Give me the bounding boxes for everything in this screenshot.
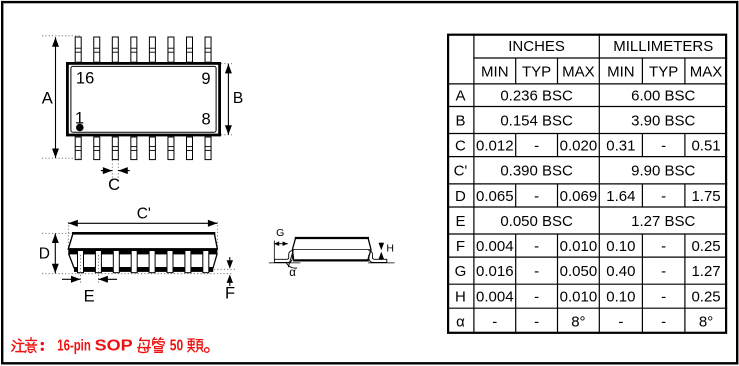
- front view: body top (lid): [68, 233, 217, 249]
- svg-text:0.154 BSC: 0.154 BSC: [500, 112, 573, 129]
- table row C': [454, 163, 696, 180]
- svg-text:9.90 BSC: 9.90 BSC: [631, 163, 695, 180]
- detail view: body side profile: [292, 238, 371, 261]
- svg-text:H: H: [386, 243, 394, 255]
- front view: body mid band: [68, 248, 217, 254]
- table header MIN TYP MAX: [481, 63, 722, 80]
- svg-text:-: -: [534, 238, 539, 255]
- svg-text:C': C': [454, 163, 468, 180]
- svg-text:MIN: MIN: [607, 63, 635, 80]
- top view: lower pins 1..8: [75, 137, 211, 160]
- red note: 管: [152, 338, 164, 353]
- svg-text:8°: 8°: [571, 313, 585, 330]
- svg-text:1.64: 1.64: [606, 188, 635, 205]
- svg-text:9: 9: [201, 70, 210, 88]
- svg-text:C: C: [108, 176, 120, 194]
- table row G: [455, 263, 721, 280]
- table row H: [455, 289, 721, 306]
- svg-text:0.51: 0.51: [691, 137, 720, 154]
- dimension E (lead pitch): [62, 255, 117, 306]
- svg-text:0.31: 0.31: [606, 137, 635, 154]
- svg-text:-: -: [534, 263, 539, 280]
- svg-text:0.069: 0.069: [560, 188, 598, 205]
- svg-text:-: -: [661, 313, 666, 330]
- dimension A (vertical, left): [42, 36, 80, 158]
- svg-text:F: F: [456, 238, 465, 255]
- svg-text:-: -: [661, 188, 666, 205]
- svg-text:TYP: TYP: [649, 63, 678, 80]
- svg-text:B: B: [455, 112, 465, 129]
- svg-text:0.004: 0.004: [476, 289, 514, 306]
- red note: 50: [170, 338, 183, 355]
- svg-text:E: E: [84, 288, 95, 306]
- svg-text:6.00 BSC: 6.00 BSC: [631, 88, 695, 105]
- svg-text:50: 50: [170, 338, 183, 355]
- dimension table: grid lines: [447, 34, 727, 334]
- svg-text:0.050: 0.050: [560, 263, 598, 280]
- red note: 意: [25, 338, 36, 353]
- dimension B (vertical, right): [221, 64, 243, 135]
- svg-text:D: D: [39, 246, 50, 263]
- red note: 每: [138, 338, 151, 353]
- table row F: [456, 238, 721, 255]
- red note: fullwidth colon: [41, 342, 44, 351]
- svg-text:1.27 BSC: 1.27 BSC: [631, 213, 695, 230]
- svg-text:C': C': [137, 206, 151, 223]
- svg-text:D: D: [455, 188, 466, 205]
- table row &#945;: [456, 313, 713, 330]
- svg-text:INCHES: INCHES: [508, 38, 565, 55]
- table row C: [455, 137, 721, 154]
- svg-text:0.050 BSC: 0.050 BSC: [500, 213, 573, 230]
- svg-text:-: -: [618, 313, 623, 330]
- pin-1 index dot: [76, 124, 84, 132]
- svg-text:0.40: 0.40: [606, 263, 635, 280]
- svg-text:8: 8: [202, 111, 211, 129]
- pin number 1: [75, 110, 84, 128]
- table row B: [455, 112, 695, 129]
- svg-text:G: G: [455, 263, 467, 280]
- svg-text:0.236 BSC: 0.236 BSC: [500, 88, 573, 105]
- svg-text:0.010: 0.010: [560, 238, 598, 255]
- front view: body bottom band: [74, 267, 213, 272]
- svg-text:E: E: [455, 213, 465, 230]
- pin number 16: [76, 70, 94, 88]
- dimension C (pin width, bottom): [101, 160, 130, 194]
- svg-text:MAX: MAX: [562, 63, 595, 80]
- svg-text:16: 16: [76, 70, 94, 88]
- front view: lower body sides: [69, 254, 218, 269]
- dimension C' (overall length, top of front view): [68, 206, 217, 249]
- dimension F (standoff, right): [214, 257, 236, 303]
- svg-text:α: α: [289, 267, 296, 279]
- pin number 9: [201, 70, 210, 88]
- svg-text:0.016: 0.016: [476, 263, 514, 280]
- dimension D (body height, left): [39, 233, 72, 273]
- svg-text:0.10: 0.10: [606, 238, 635, 255]
- table row A: [455, 88, 695, 105]
- svg-text:SOP: SOP: [95, 338, 133, 355]
- svg-text:0.010: 0.010: [560, 289, 598, 306]
- svg-text:8°: 8°: [699, 313, 713, 330]
- svg-text:α: α: [456, 313, 465, 330]
- svg-text:F: F: [225, 285, 235, 303]
- svg-text:1.75: 1.75: [691, 188, 720, 205]
- svg-text:H: H: [455, 289, 466, 306]
- detail view: left gull-wing lead: [274, 251, 292, 263]
- svg-text:MAX: MAX: [690, 63, 723, 80]
- red note: 16-pin SOP: [57, 338, 133, 355]
- svg-text:0.25: 0.25: [691, 289, 720, 306]
- angle alpha: [286, 250, 297, 279]
- svg-text:G: G: [276, 227, 284, 239]
- svg-text:-: -: [534, 289, 539, 306]
- dimension table: outer border: [448, 35, 726, 333]
- svg-text:-: -: [492, 313, 497, 330]
- svg-text:-: -: [661, 289, 666, 306]
- detail view: left seating line: [269, 262, 300, 264]
- svg-text:-: -: [534, 137, 539, 154]
- front view: 8 gull-wing leads: [78, 251, 209, 273]
- svg-text:0.10: 0.10: [606, 289, 635, 306]
- table row D: [455, 188, 721, 205]
- svg-text:16-pin: 16-pin: [57, 338, 91, 355]
- top view: package body outline: [67, 63, 219, 135]
- svg-text:-: -: [661, 238, 666, 255]
- svg-text:3.90 BSC: 3.90 BSC: [631, 112, 695, 129]
- table header INCHES / MILLIMETERS: [508, 38, 713, 55]
- svg-text:0.004: 0.004: [476, 238, 514, 255]
- svg-text:-: -: [661, 263, 666, 280]
- svg-text:MILLIMETERS: MILLIMETERS: [613, 38, 713, 55]
- svg-text:-: -: [534, 313, 539, 330]
- svg-text:0.020: 0.020: [560, 137, 598, 154]
- detail view: right seating line: [368, 262, 395, 264]
- svg-text:B: B: [233, 90, 243, 107]
- svg-text:0.065: 0.065: [476, 188, 514, 205]
- top view: upper pins 16..9: [75, 37, 211, 62]
- seating plane (dotted): [42, 273, 233, 275]
- dimension H (lead thickness): [379, 243, 394, 260]
- svg-text:C: C: [455, 137, 466, 154]
- svg-text:-: -: [661, 137, 666, 154]
- svg-text:0.390 BSC: 0.390 BSC: [500, 163, 573, 180]
- red note: ideographic full stop: [205, 348, 210, 353]
- svg-text:0.012: 0.012: [476, 137, 514, 154]
- svg-text:A: A: [455, 88, 465, 105]
- pin number 8: [202, 111, 211, 129]
- svg-text:0.25: 0.25: [691, 238, 720, 255]
- svg-text:-: -: [534, 188, 539, 205]
- detail view: right gull-wing lead: [368, 251, 386, 263]
- svg-text:A: A: [42, 89, 53, 107]
- svg-text:1.27: 1.27: [691, 263, 720, 280]
- dimension G (foot length): [274, 227, 288, 259]
- table row E: [455, 213, 695, 230]
- detail view: lead mid line: [292, 249, 371, 251]
- svg-text:TYP: TYP: [522, 63, 551, 80]
- red note: 颗: [188, 339, 203, 352]
- red note: 注: [12, 339, 25, 351]
- svg-text:MIN: MIN: [481, 63, 509, 80]
